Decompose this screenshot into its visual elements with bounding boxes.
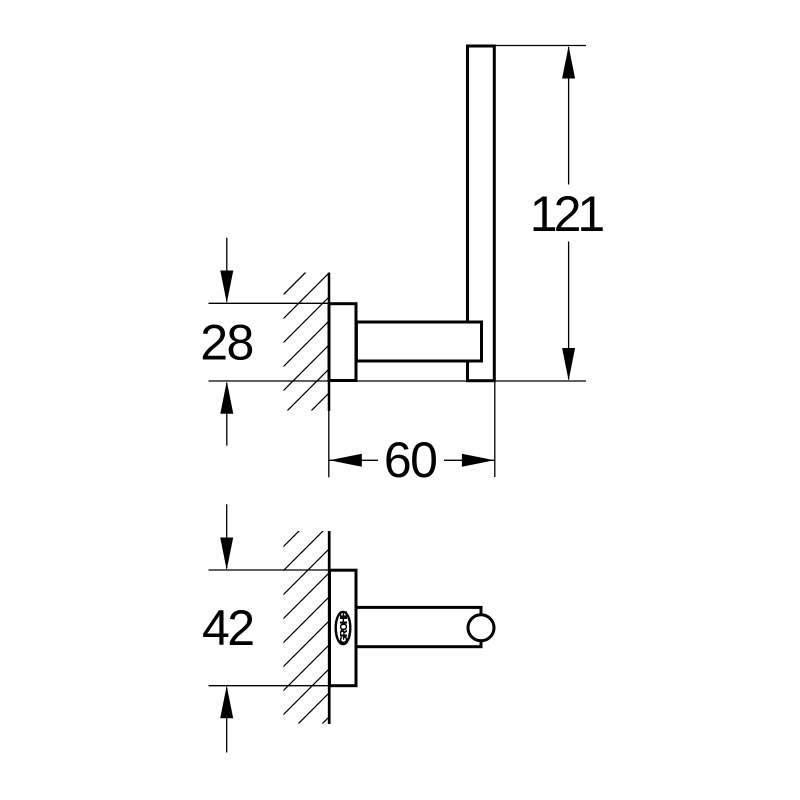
roller circle xyxy=(468,615,494,641)
wall line (bottom view) xyxy=(328,531,331,724)
wall line (top view) xyxy=(328,273,331,411)
42 dim upper arrow xyxy=(220,504,233,570)
121 dim line lower segment + arrow xyxy=(562,242,575,381)
svg-text:42: 42 xyxy=(202,600,253,656)
28 dim upper arrow xyxy=(220,238,233,303)
60 dim right extension line xyxy=(494,382,496,477)
svg-text:GROHE: GROHE xyxy=(339,610,350,643)
121 dim line upper segment + arrow xyxy=(562,46,575,185)
wall hatching (top view) xyxy=(283,272,331,416)
42 dim lower arrow xyxy=(220,686,233,753)
wall hatching (bottom view) xyxy=(283,524,331,726)
bar (vertical post, top view) xyxy=(468,46,495,381)
extension line plate top (42 dim, y=570) xyxy=(209,569,357,571)
svg-text:60: 60 xyxy=(384,432,437,488)
svg-text:121: 121 xyxy=(530,186,604,242)
60 dim line left segment + arrow xyxy=(329,454,378,467)
extension line top of bar (121 dim, y=45.5) xyxy=(480,45,586,47)
arm (bottom view) xyxy=(356,607,481,646)
wall plate (top view) xyxy=(329,304,356,381)
60 dim left extension line (below wall) xyxy=(328,411,330,478)
wall plate (bottom view) xyxy=(330,570,357,686)
extension line plate bottom (42 dim, y=685.7) xyxy=(209,685,357,687)
long bottom extension line (y=381) xyxy=(209,380,587,382)
svg-text:28: 28 xyxy=(200,315,253,371)
arm (top view) xyxy=(356,322,481,361)
extension line plate top (28 dim, y=303.3) xyxy=(209,302,357,304)
GROHE logo on plate xyxy=(336,610,351,644)
28 dim lower arrow xyxy=(220,381,233,445)
60 dim line right segment + arrow xyxy=(444,454,494,467)
